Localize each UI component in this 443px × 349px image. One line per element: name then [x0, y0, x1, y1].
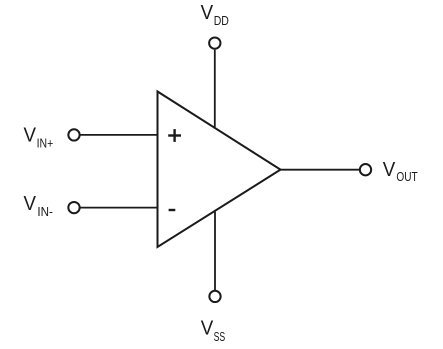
wire VDD [214, 50, 216, 128]
svg-text:IN-: IN- [37, 205, 53, 219]
op-amp U1 triangle body [158, 92, 281, 248]
plus sign (non-inverting input marker) [168, 129, 181, 142]
svg-text:V: V [383, 159, 396, 181]
wire VOUT [281, 169, 360, 171]
wire VIN- [80, 207, 157, 209]
svg-text:V: V [201, 2, 214, 24]
terminal circle VSS [209, 291, 220, 302]
terminal circle VOUT [360, 164, 371, 175]
label VOUT [383, 159, 418, 184]
svg-text:V: V [24, 193, 37, 215]
label VDD [201, 2, 229, 28]
svg-text:V: V [24, 125, 37, 147]
terminal circle VIN- [68, 202, 79, 213]
svg-text:DD: DD [214, 14, 229, 28]
label VIN- [24, 193, 53, 219]
terminal circle VIN+ [68, 129, 79, 140]
minus sign (inverting input marker) [169, 209, 176, 211]
label VSS [201, 317, 225, 344]
wire VSS [214, 212, 216, 291]
svg-text:SS: SS [214, 330, 226, 344]
wire VIN+ [80, 134, 157, 136]
svg-text:OUT: OUT [396, 170, 418, 184]
terminal circle VDD [209, 37, 220, 48]
svg-text:V: V [201, 317, 214, 339]
svg-text:IN+: IN+ [37, 137, 54, 151]
label VIN+ [24, 125, 54, 151]
